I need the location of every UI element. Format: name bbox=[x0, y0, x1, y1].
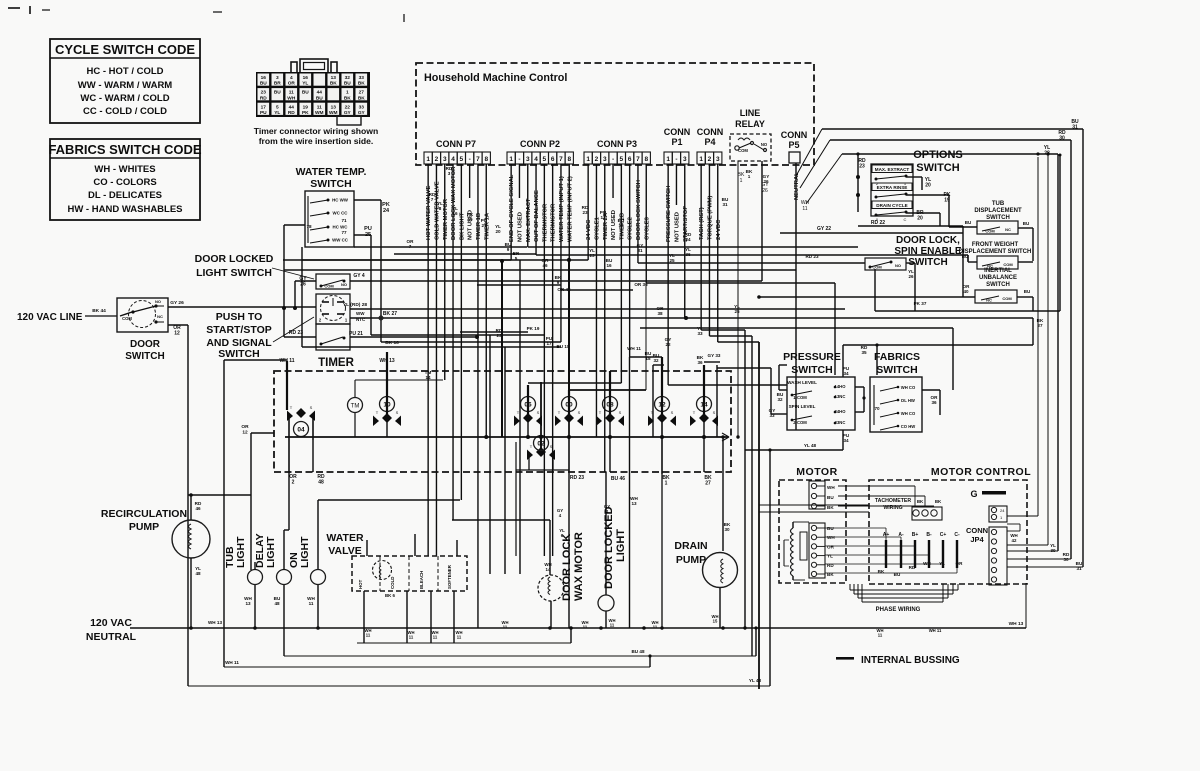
svg-text:-: - bbox=[469, 156, 471, 163]
svg-text:24: 24 bbox=[383, 208, 390, 214]
svg-text:FABRICS: FABRICS bbox=[874, 351, 920, 363]
svg-text:Household Machine Control: Household Machine Control bbox=[424, 72, 567, 84]
svg-text:WM: WM bbox=[315, 110, 324, 116]
svg-text:PRESSURE: PRESSURE bbox=[783, 351, 841, 363]
svg-text:RELAY: RELAY bbox=[735, 119, 765, 129]
svg-text:BU: BU bbox=[827, 526, 834, 531]
svg-text:WH: WH bbox=[287, 95, 296, 101]
svg-text:WW CC: WW CC bbox=[332, 238, 349, 243]
svg-text:CYCLE3: CYCLE3 bbox=[644, 216, 650, 240]
svg-text:5: 5 bbox=[460, 156, 464, 163]
svg-text:THERMISTOR: THERMISTOR bbox=[542, 203, 548, 242]
svg-text:RD 22: RD 22 bbox=[871, 220, 885, 226]
svg-text:2: 2 bbox=[435, 156, 439, 163]
svg-text:NO: NO bbox=[155, 299, 161, 304]
svg-text:2: 2 bbox=[708, 156, 712, 163]
svg-text:RD: RD bbox=[288, 110, 295, 116]
svg-text:from the wire insertion side.: from the wire insertion side. bbox=[259, 136, 374, 146]
svg-text:SOFTENER: SOFTENER bbox=[447, 564, 452, 589]
svg-text:27: 27 bbox=[705, 481, 711, 487]
svg-text:34: 34 bbox=[843, 371, 849, 376]
svg-text:CONN: CONN bbox=[697, 127, 724, 137]
svg-text:SWITCH: SWITCH bbox=[986, 215, 1010, 221]
svg-text:120 VAC LINE: 120 VAC LINE bbox=[17, 312, 83, 323]
svg-text:HC WW: HC WW bbox=[332, 198, 349, 203]
svg-text:16: 16 bbox=[303, 75, 309, 81]
svg-text:CONN: CONN bbox=[781, 130, 808, 140]
svg-text:NOT USED: NOT USED bbox=[517, 212, 523, 242]
svg-text:WATER TEMP (INPUT 1): WATER TEMP (INPUT 1) bbox=[559, 176, 565, 242]
svg-text:WH - WHITES: WH - WHITES bbox=[94, 164, 155, 175]
svg-text:7: 7 bbox=[409, 244, 412, 249]
svg-text:9: 9 bbox=[507, 247, 510, 252]
svg-text:46: 46 bbox=[195, 506, 201, 511]
svg-text:11: 11 bbox=[309, 601, 314, 606]
svg-text:MOTOR: MOTOR bbox=[796, 466, 837, 478]
svg-text:CONN P3: CONN P3 bbox=[597, 139, 637, 149]
svg-text:30: 30 bbox=[1059, 136, 1065, 142]
svg-text:18: 18 bbox=[645, 356, 651, 361]
svg-text:TACH (RST): TACH (RST) bbox=[699, 207, 705, 240]
svg-text:WH 11: WH 11 bbox=[929, 628, 942, 633]
svg-text:WH: WH bbox=[923, 561, 931, 566]
svg-text:1: 1 bbox=[666, 156, 670, 163]
svg-text:RD 23: RD 23 bbox=[805, 254, 818, 259]
svg-text:Timer connector wiring shown: Timer connector wiring shown bbox=[254, 126, 378, 136]
svg-text:BU: BU bbox=[316, 95, 323, 101]
svg-text:BLEACH: BLEACH bbox=[419, 571, 424, 589]
svg-text:YL: YL bbox=[939, 561, 945, 566]
svg-text:38: 38 bbox=[657, 311, 663, 316]
svg-text:34: 34 bbox=[843, 438, 849, 443]
svg-text:TUB: TUB bbox=[992, 201, 1005, 207]
svg-text:LINE: LINE bbox=[740, 108, 761, 118]
svg-text:25: 25 bbox=[669, 258, 675, 263]
svg-text:-: - bbox=[518, 156, 520, 163]
svg-text:CONN P2: CONN P2 bbox=[520, 139, 560, 149]
svg-text:HC - HOT / COLD: HC - HOT / COLD bbox=[86, 66, 163, 77]
svg-text:20: 20 bbox=[925, 183, 931, 189]
svg-text:26: 26 bbox=[763, 179, 769, 184]
svg-text:1: 1 bbox=[509, 156, 513, 163]
svg-text:8: 8 bbox=[567, 156, 571, 163]
svg-text:17: 17 bbox=[546, 341, 552, 346]
svg-text:GY 26: GY 26 bbox=[170, 300, 184, 306]
svg-text:MAX. EXTRACT: MAX. EXTRACT bbox=[875, 167, 910, 172]
svg-text:9: 9 bbox=[557, 280, 560, 285]
svg-text:BK: BK bbox=[330, 81, 337, 87]
svg-text:11: 11 bbox=[317, 104, 322, 110]
svg-text:COM: COM bbox=[1003, 262, 1013, 267]
svg-text:25: 25 bbox=[734, 309, 740, 314]
svg-text:04: 04 bbox=[297, 427, 305, 434]
svg-text:26: 26 bbox=[300, 282, 306, 288]
svg-text:11: 11 bbox=[433, 635, 438, 640]
svg-text:LIGHT: LIGHT bbox=[615, 529, 627, 562]
svg-text:COM: COM bbox=[324, 284, 334, 289]
svg-text:SWITCH: SWITCH bbox=[916, 162, 959, 174]
svg-text:PHASE WIRING: PHASE WIRING bbox=[876, 607, 921, 613]
svg-text:44: 44 bbox=[289, 104, 295, 110]
svg-text:BK: BK bbox=[827, 505, 834, 510]
svg-text:S: S bbox=[671, 410, 674, 415]
svg-text:G: G bbox=[970, 489, 977, 499]
svg-text:BK: BK bbox=[917, 499, 924, 504]
svg-text:NEUTRAL: NEUTRAL bbox=[794, 172, 800, 200]
svg-text:START/STOP: START/STOP bbox=[206, 324, 272, 336]
svg-text:4: 4 bbox=[451, 156, 455, 163]
svg-text:BU: BU bbox=[962, 254, 969, 259]
svg-text:3: 3 bbox=[526, 156, 530, 163]
svg-text:3: 3 bbox=[276, 75, 279, 81]
svg-text:13: 13 bbox=[331, 75, 337, 81]
svg-text:21: 21 bbox=[481, 223, 487, 228]
svg-text:23: 23 bbox=[582, 210, 588, 215]
svg-text:13: 13 bbox=[331, 104, 337, 110]
svg-text:BU: BU bbox=[274, 90, 281, 96]
svg-text:16: 16 bbox=[452, 211, 458, 216]
svg-text:13: 13 bbox=[245, 601, 251, 606]
svg-text:RD: RD bbox=[909, 565, 916, 570]
svg-text:31: 31 bbox=[1076, 566, 1082, 571]
svg-text:4: 4 bbox=[534, 156, 538, 163]
svg-text:1: 1 bbox=[699, 156, 703, 163]
svg-text:WW - WARM / WARM: WW - WARM / WARM bbox=[78, 80, 173, 91]
svg-text:12: 12 bbox=[242, 429, 248, 435]
svg-text:-: - bbox=[675, 156, 677, 163]
svg-text:17: 17 bbox=[261, 104, 267, 110]
svg-text:78: 78 bbox=[306, 224, 312, 229]
svg-text:48: 48 bbox=[195, 571, 201, 576]
svg-text:SWITCH: SWITCH bbox=[986, 282, 1010, 288]
svg-text:5: 5 bbox=[543, 156, 547, 163]
svg-text:33: 33 bbox=[769, 413, 775, 418]
svg-text:INERTIAL: INERTIAL bbox=[984, 268, 1012, 274]
svg-text:WATER TEMP (INPUT 2): WATER TEMP (INPUT 2) bbox=[567, 176, 573, 242]
svg-text:BU 18: BU 18 bbox=[556, 344, 569, 349]
svg-text:13NC: 13NC bbox=[835, 394, 846, 399]
svg-text:46: 46 bbox=[542, 263, 548, 268]
svg-text:120 VAC: 120 VAC bbox=[90, 617, 132, 629]
svg-text:32: 32 bbox=[345, 75, 351, 81]
svg-text:COM: COM bbox=[1002, 296, 1012, 301]
svg-text:TIMER: TIMER bbox=[318, 357, 354, 369]
svg-text:36: 36 bbox=[697, 360, 703, 365]
svg-text:1: 1 bbox=[426, 156, 430, 163]
svg-text:SWITCH: SWITCH bbox=[125, 351, 164, 362]
svg-text:11: 11 bbox=[878, 633, 883, 638]
svg-text:6: 6 bbox=[551, 156, 555, 163]
svg-text:NOT USED: NOT USED bbox=[611, 210, 617, 240]
svg-text:DOOR LOCKED: DOOR LOCKED bbox=[603, 506, 615, 589]
svg-text:WH CO: WH CO bbox=[901, 411, 916, 416]
svg-text:P1: P1 bbox=[671, 137, 682, 147]
svg-text:PRESSURE SWITCH: PRESSURE SWITCH bbox=[666, 186, 672, 242]
svg-text:14: 14 bbox=[546, 567, 551, 572]
svg-text:DOOR LOCK,: DOOR LOCK, bbox=[896, 235, 960, 246]
svg-text:CC - COLD / COLD: CC - COLD / COLD bbox=[83, 106, 167, 117]
svg-text:27: 27 bbox=[359, 90, 365, 96]
svg-text:SWITCH: SWITCH bbox=[218, 348, 259, 360]
svg-text:DOOR LOCK: DOOR LOCK bbox=[561, 534, 573, 601]
svg-text:PUMP: PUMP bbox=[676, 554, 706, 566]
svg-text:11: 11 bbox=[610, 623, 615, 628]
svg-text:RD 23: RD 23 bbox=[570, 475, 584, 481]
svg-text:WW: WW bbox=[356, 311, 365, 316]
svg-text:24HO: 24HO bbox=[835, 409, 847, 414]
svg-text:BK: BK bbox=[935, 499, 942, 504]
svg-text:SPIN ENABLE: SPIN ENABLE bbox=[894, 246, 962, 257]
svg-text:THERMISTOR: THERMISTOR bbox=[551, 203, 557, 242]
svg-text:BU: BU bbox=[344, 81, 351, 87]
svg-text:4: 4 bbox=[290, 75, 293, 81]
svg-text:20: 20 bbox=[495, 229, 501, 234]
svg-text:NOT USED: NOT USED bbox=[674, 212, 680, 242]
svg-text:1-COM: 1-COM bbox=[793, 395, 807, 400]
svg-text:BK: BK bbox=[344, 95, 351, 101]
svg-text:HW - HAND WASHABLES: HW - HAND WASHABLES bbox=[67, 204, 182, 215]
svg-text:33: 33 bbox=[359, 104, 365, 110]
svg-text:33: 33 bbox=[359, 75, 365, 81]
svg-text:WC CC: WC CC bbox=[333, 211, 349, 216]
svg-text:GY 22: GY 22 bbox=[817, 226, 831, 232]
svg-text:WH 11: WH 11 bbox=[225, 660, 239, 665]
svg-text:UNBALANCE: UNBALANCE bbox=[979, 275, 1017, 281]
svg-text:3: 3 bbox=[683, 156, 687, 163]
svg-text:INTERNAL BUSSING: INTERNAL BUSSING bbox=[861, 655, 960, 666]
svg-text:BK 27: BK 27 bbox=[383, 311, 397, 317]
svg-text:RD: RD bbox=[827, 563, 834, 568]
svg-text:COM: COM bbox=[985, 229, 995, 234]
svg-text:NO: NO bbox=[341, 282, 347, 287]
svg-text:24: 24 bbox=[685, 237, 691, 242]
svg-text:7: 7 bbox=[559, 156, 563, 163]
svg-text:15: 15 bbox=[713, 619, 718, 624]
svg-text:7: 7 bbox=[636, 156, 640, 163]
svg-text:DRAIN: DRAIN bbox=[674, 540, 707, 552]
svg-text:END-OF-CYCLE SIGNAL: END-OF-CYCLE SIGNAL bbox=[509, 174, 515, 242]
svg-text:BU: BU bbox=[827, 495, 834, 500]
svg-text:BK: BK bbox=[358, 95, 365, 101]
svg-text:3: 3 bbox=[603, 156, 607, 163]
svg-text:3: 3 bbox=[448, 171, 451, 176]
svg-text:YL: YL bbox=[274, 110, 280, 116]
svg-text:13: 13 bbox=[631, 501, 637, 506]
svg-text:COM: COM bbox=[872, 265, 882, 270]
svg-text:LIGHT: LIGHT bbox=[299, 536, 311, 568]
svg-text:1: 1 bbox=[346, 90, 349, 96]
svg-text:BK 16: BK 16 bbox=[385, 340, 399, 346]
svg-text:WH 11: WH 11 bbox=[279, 358, 294, 364]
svg-text:2: 2 bbox=[595, 156, 599, 163]
svg-text:OR: OR bbox=[241, 424, 249, 430]
svg-text:C+: C+ bbox=[940, 532, 947, 538]
svg-text:SWITCH: SWITCH bbox=[876, 364, 917, 376]
svg-text:11: 11 bbox=[653, 625, 658, 630]
svg-text:S: S bbox=[396, 410, 399, 415]
svg-text:OR 36: OR 36 bbox=[634, 282, 648, 287]
svg-text:26: 26 bbox=[762, 188, 768, 194]
svg-text:33: 33 bbox=[697, 331, 703, 336]
svg-text:GY: GY bbox=[358, 110, 366, 116]
svg-text:SWITCH: SWITCH bbox=[791, 364, 832, 376]
svg-text:S: S bbox=[537, 410, 540, 415]
svg-text:EXTRA RINSE: EXTRA RINSE bbox=[877, 185, 908, 190]
svg-text:35: 35 bbox=[861, 350, 867, 355]
svg-text:1: 1 bbox=[740, 178, 743, 184]
svg-text:42: 42 bbox=[1012, 538, 1017, 543]
svg-text:MOTOR CONTROL: MOTOR CONTROL bbox=[931, 466, 1031, 478]
svg-text:24 VDC: 24 VDC bbox=[716, 219, 722, 240]
svg-text:12: 12 bbox=[174, 331, 180, 337]
svg-text:PU: PU bbox=[260, 110, 267, 116]
svg-text:PK 19: PK 19 bbox=[527, 326, 540, 331]
svg-text:8: 8 bbox=[484, 156, 488, 163]
svg-text:1: 1 bbox=[665, 481, 668, 487]
svg-text:DRAIN CYCLE: DRAIN CYCLE bbox=[876, 203, 907, 208]
svg-text:11: 11 bbox=[802, 206, 807, 212]
svg-text:2: 2 bbox=[292, 480, 295, 486]
svg-text:CO - COLORS: CO - COLORS bbox=[93, 177, 156, 188]
svg-text:YL (RD) 28: YL (RD) 28 bbox=[343, 302, 367, 308]
svg-text:P5: P5 bbox=[788, 140, 799, 150]
svg-text:2-COM: 2-COM bbox=[793, 420, 807, 425]
svg-text:7: 7 bbox=[476, 156, 480, 163]
svg-text:MAX. EXTRACT: MAX. EXTRACT bbox=[526, 198, 532, 242]
svg-text:COM: COM bbox=[122, 316, 132, 321]
svg-text:WH: WH bbox=[827, 535, 835, 540]
svg-text:BR: BR bbox=[274, 81, 281, 87]
svg-text:23NC: 23NC bbox=[835, 420, 846, 425]
svg-text:32: 32 bbox=[777, 397, 783, 402]
svg-text:40: 40 bbox=[963, 289, 969, 294]
svg-text:S: S bbox=[578, 410, 581, 415]
svg-text:44: 44 bbox=[317, 90, 323, 96]
svg-text:B-: B- bbox=[926, 532, 932, 538]
svg-text:32: 32 bbox=[653, 358, 659, 363]
svg-text:11: 11 bbox=[289, 90, 294, 96]
svg-text:CYCLE2: CYCLE2 bbox=[628, 217, 634, 240]
svg-text:WH 13: WH 13 bbox=[208, 620, 222, 625]
svg-text:TACHOMETER: TACHOMETER bbox=[875, 498, 911, 504]
svg-text:PK 37: PK 37 bbox=[914, 301, 927, 306]
svg-text:OPTIONS: OPTIONS bbox=[913, 149, 963, 161]
svg-text:5: 5 bbox=[276, 104, 279, 110]
svg-text:WH 13: WH 13 bbox=[379, 358, 395, 364]
svg-text:WASH LEVEL: WASH LEVEL bbox=[787, 380, 817, 385]
svg-text:11: 11 bbox=[457, 635, 462, 640]
svg-text:31: 31 bbox=[722, 202, 728, 207]
svg-text:DOOR: DOOR bbox=[130, 339, 161, 350]
svg-text:OR: OR bbox=[288, 81, 296, 87]
svg-text:CYCLE SWITCH CODE: CYCLE SWITCH CODE bbox=[55, 42, 195, 57]
svg-text:WATER TEMP.: WATER TEMP. bbox=[296, 166, 367, 178]
svg-text:1: 1 bbox=[586, 156, 590, 163]
svg-text:C: C bbox=[904, 217, 907, 222]
svg-text:WH 13: WH 13 bbox=[1009, 621, 1024, 627]
svg-text:6: 6 bbox=[628, 156, 632, 163]
svg-text:PUSH TO: PUSH TO bbox=[216, 311, 262, 323]
svg-text:CO HW: CO HW bbox=[901, 424, 915, 429]
svg-text:30: 30 bbox=[724, 527, 730, 532]
svg-text:NO: NO bbox=[761, 142, 768, 147]
svg-text:24 VDC: 24 VDC bbox=[586, 219, 592, 240]
svg-text:PU 21: PU 21 bbox=[349, 331, 363, 337]
svg-text:COLD: COLD bbox=[390, 577, 395, 589]
svg-text:OR: OR bbox=[827, 544, 835, 549]
svg-text:P4: P4 bbox=[704, 137, 715, 147]
svg-text:30: 30 bbox=[1063, 557, 1069, 562]
svg-text:19: 19 bbox=[467, 217, 473, 222]
svg-text:S: S bbox=[713, 410, 716, 415]
svg-text:WM: WM bbox=[329, 110, 338, 116]
svg-text:5: 5 bbox=[620, 156, 624, 163]
svg-text:BU: BU bbox=[302, 90, 309, 96]
svg-text:20: 20 bbox=[917, 216, 923, 222]
svg-text:S: S bbox=[310, 405, 313, 410]
svg-text:70: 70 bbox=[874, 406, 880, 411]
svg-text:NEUTRAL: NEUTRAL bbox=[86, 631, 137, 643]
svg-text:BK 44: BK 44 bbox=[92, 308, 106, 314]
svg-text:CONN: CONN bbox=[966, 526, 988, 535]
svg-text:CONN P7: CONN P7 bbox=[436, 139, 476, 149]
svg-text:14HO: 14HO bbox=[835, 384, 847, 389]
svg-text:17: 17 bbox=[600, 215, 606, 220]
svg-text:23: 23 bbox=[261, 90, 267, 96]
svg-text:WC - WARM / COLD: WC - WARM / COLD bbox=[80, 93, 169, 104]
svg-text:BU: BU bbox=[1024, 289, 1031, 294]
svg-text:VALVE: VALVE bbox=[328, 545, 361, 557]
svg-text:48: 48 bbox=[274, 601, 280, 606]
svg-text:22: 22 bbox=[345, 104, 351, 110]
svg-text:DOOR LOCK SWITCH: DOOR LOCK SWITCH bbox=[636, 180, 642, 240]
svg-text:YL: YL bbox=[302, 81, 308, 87]
svg-text:18: 18 bbox=[618, 223, 624, 228]
svg-text:OR 46: OR 46 bbox=[557, 287, 571, 292]
svg-text:CONN: CONN bbox=[664, 127, 691, 137]
svg-text:BK: BK bbox=[358, 81, 365, 87]
svg-text:GY 4: GY 4 bbox=[353, 273, 365, 279]
svg-text:LIGHT: LIGHT bbox=[235, 536, 247, 568]
svg-text:SPIN LEVEL: SPIN LEVEL bbox=[789, 404, 816, 409]
svg-text:PUMP: PUMP bbox=[129, 521, 159, 533]
svg-text:1: 1 bbox=[748, 174, 751, 179]
svg-text:31: 31 bbox=[637, 248, 643, 253]
svg-text:NC: NC bbox=[986, 298, 992, 303]
svg-text:PK: PK bbox=[302, 110, 309, 116]
svg-text:RD 23: RD 23 bbox=[289, 330, 303, 336]
svg-text:23: 23 bbox=[859, 164, 865, 170]
svg-text:GY 33: GY 33 bbox=[708, 353, 721, 358]
svg-text:16: 16 bbox=[606, 263, 612, 268]
svg-text:36: 36 bbox=[685, 252, 691, 257]
svg-text:BU: BU bbox=[1023, 221, 1030, 226]
svg-text:DOOR LOCK WAX MOTOR: DOOR LOCK WAX MOTOR bbox=[451, 166, 457, 240]
svg-text:TIMER MOTOR: TIMER MOTOR bbox=[443, 198, 449, 240]
svg-text:LIGHT: LIGHT bbox=[265, 536, 277, 568]
svg-text:S: S bbox=[619, 410, 622, 415]
svg-text:TORQUE (PWM): TORQUE (PWM) bbox=[707, 196, 713, 240]
svg-text:8: 8 bbox=[644, 156, 648, 163]
svg-text:NC: NC bbox=[1005, 227, 1011, 232]
svg-text:7: 7 bbox=[431, 197, 434, 202]
svg-text:RD: RD bbox=[260, 95, 267, 101]
svg-text:48: 48 bbox=[318, 480, 324, 486]
svg-text:BU 46: BU 46 bbox=[611, 476, 625, 482]
svg-text:3: 3 bbox=[716, 156, 720, 163]
svg-text:TM: TM bbox=[351, 404, 360, 410]
svg-text:11: 11 bbox=[366, 633, 371, 638]
